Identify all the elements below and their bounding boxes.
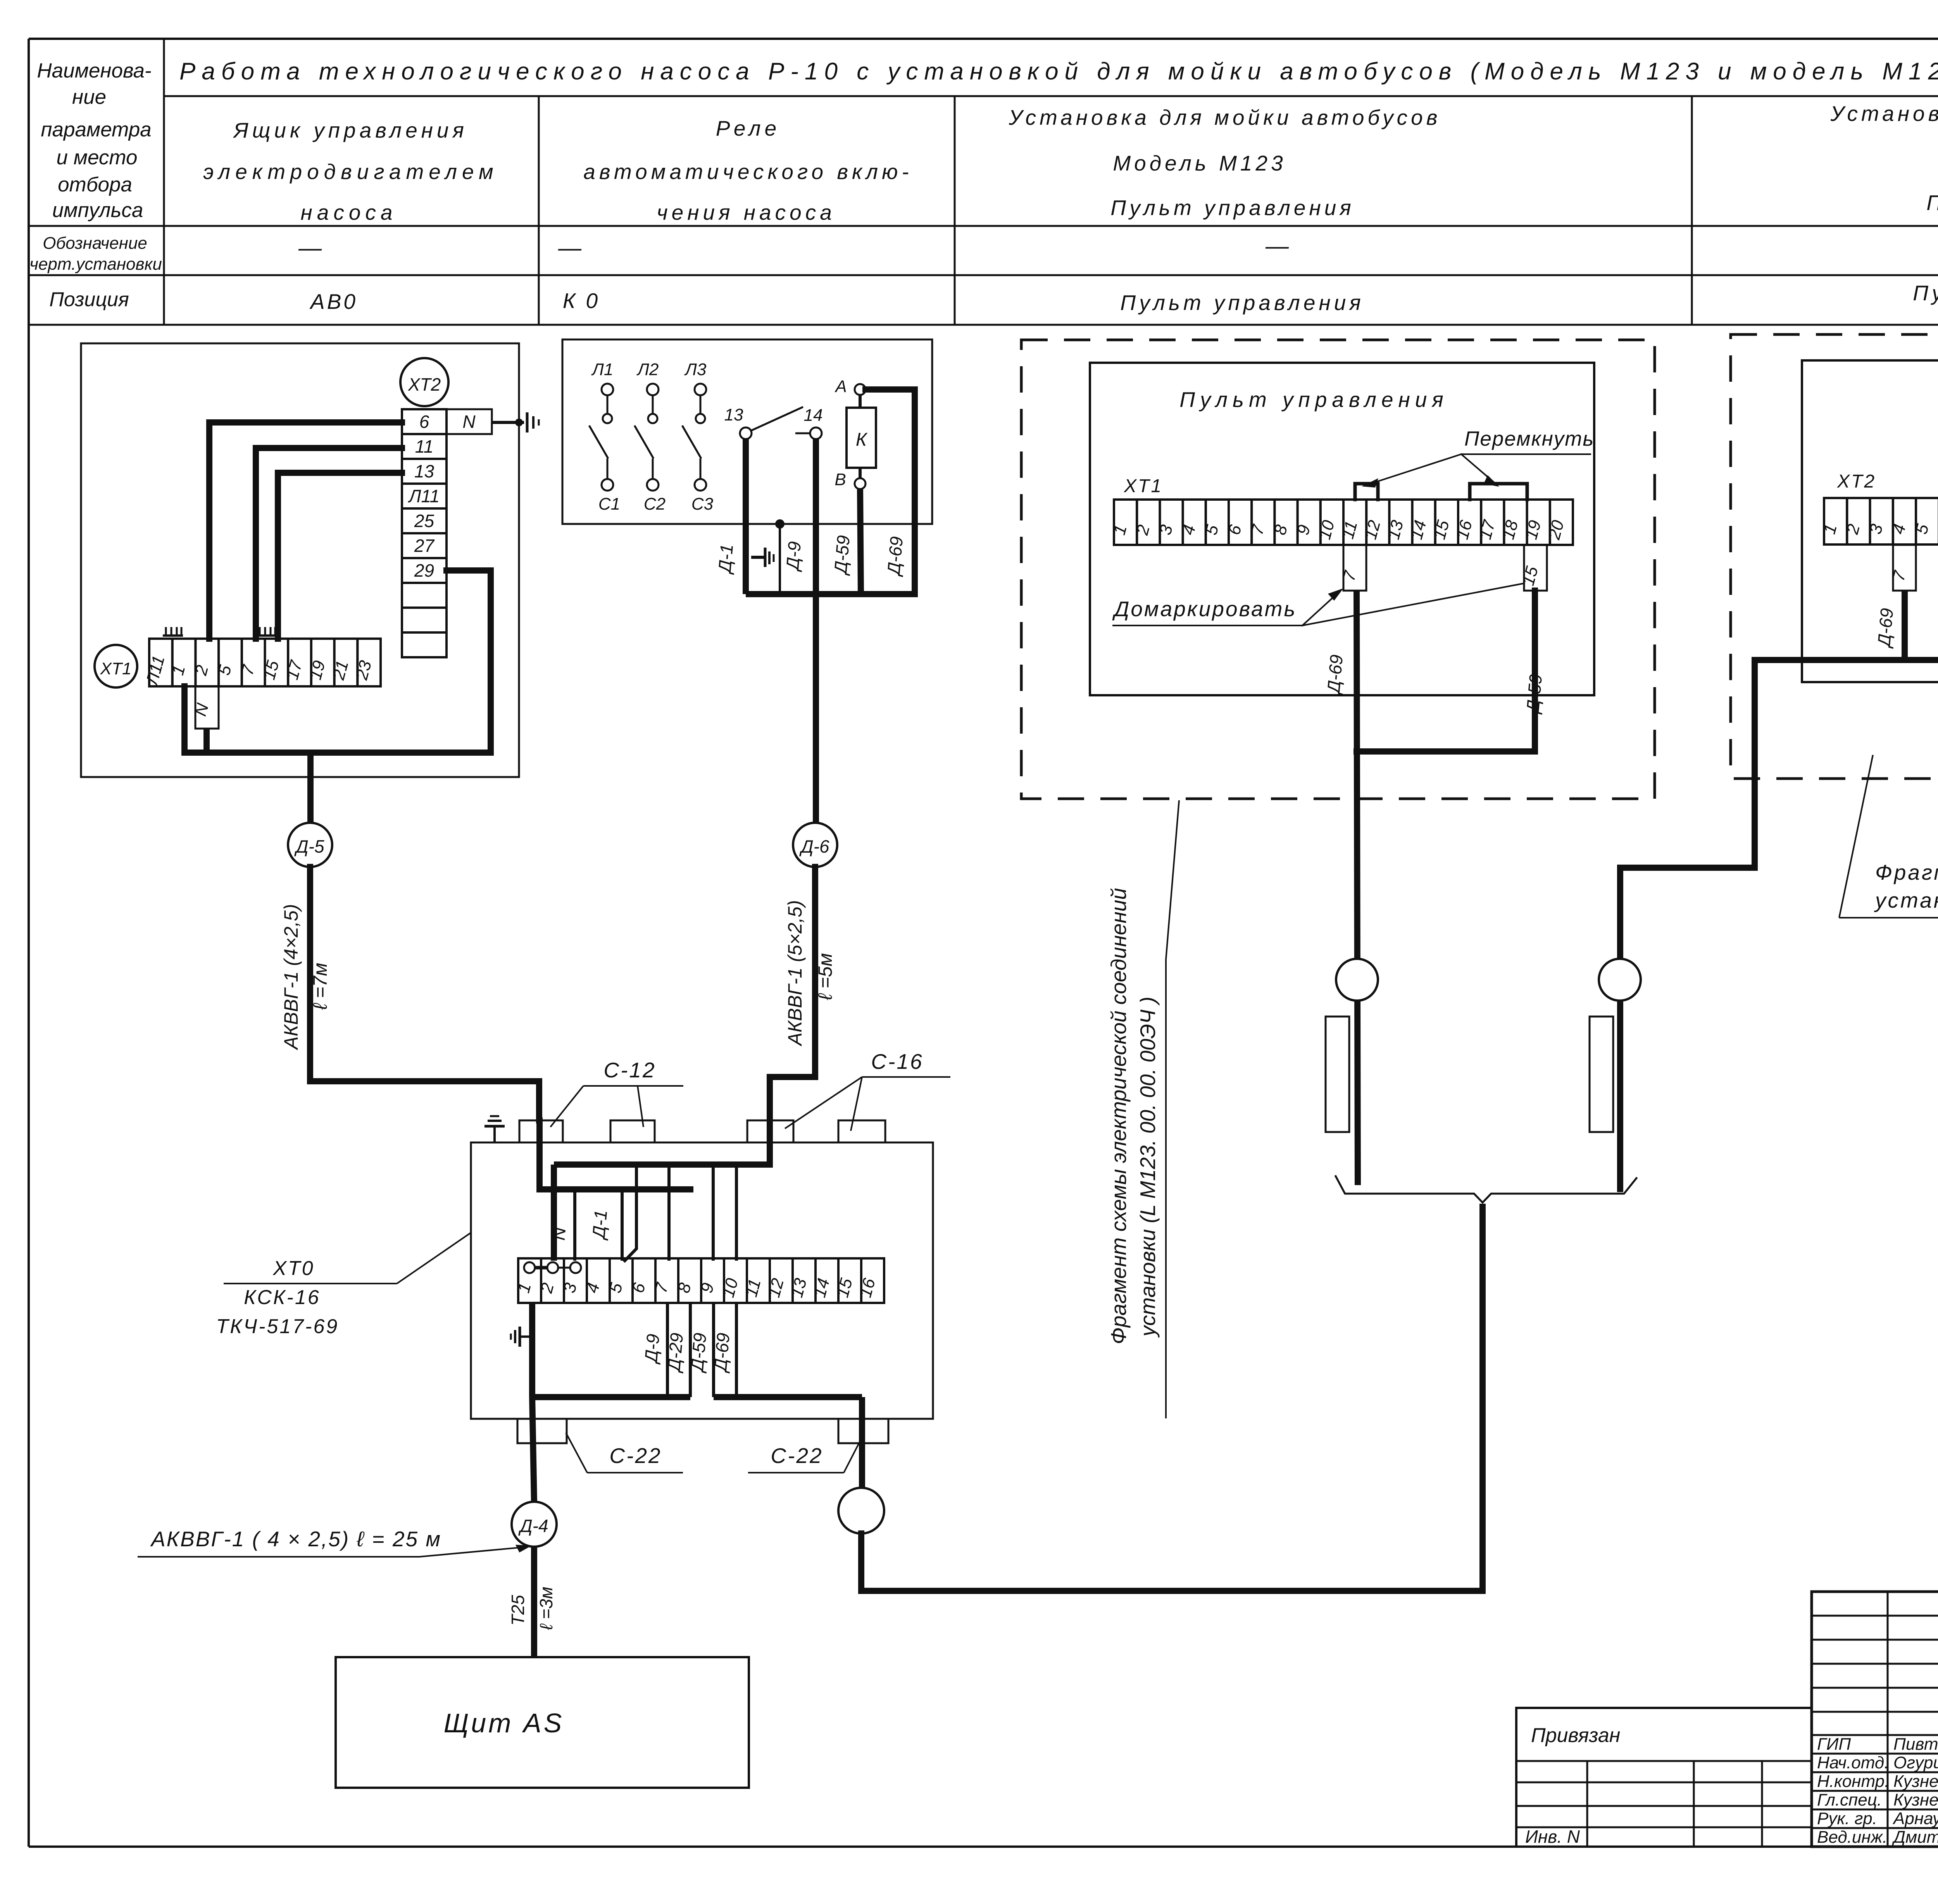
svg-text:С2: С2 bbox=[644, 495, 666, 513]
cable designation circle (unlabeled) bbox=[838, 1488, 884, 1534]
hanging terminal 15 bbox=[1519, 545, 1547, 591]
cable АКВВГ-1(5х2,5) run to gland C-16 bbox=[770, 867, 815, 1165]
wire XT1:N stub to bus bbox=[203, 729, 210, 753]
svg-text:Пульт управления: Пульт управления bbox=[1913, 281, 1938, 305]
svg-text:Установка для мойки автобус: Установка для мойки автобусов bbox=[1009, 105, 1441, 129]
title block grid bbox=[1812, 1592, 1938, 1847]
svg-text:С-22: С-22 bbox=[771, 1444, 823, 1468]
svg-text:и место: и место bbox=[57, 146, 138, 169]
cable gland bottom 2 bbox=[838, 1419, 888, 1443]
switch contact 13-14 bbox=[724, 405, 823, 439]
gland label C-22 right bbox=[748, 1433, 864, 1473]
terminal strip XT1 (horizontal, Л11..23) bbox=[142, 639, 381, 688]
gathering brace bbox=[1336, 1176, 1636, 1203]
wire 13 down bbox=[743, 439, 749, 594]
control cabinet box (Ящик управления) bbox=[81, 343, 519, 777]
svg-text:автоматического вклю-: автоматического вклю- bbox=[583, 160, 912, 184]
gland label C-12 bbox=[550, 1058, 683, 1127]
svg-text:—: — bbox=[298, 235, 322, 261]
cable designation circle Д-5 bbox=[288, 823, 332, 867]
wire to exit circle bbox=[859, 1397, 865, 1488]
svg-text:Д-9: Д-9 bbox=[641, 1333, 664, 1365]
svg-text:Д-4: Д-4 bbox=[518, 1516, 548, 1536]
wire Д-69 terminal 10 down bbox=[735, 1303, 738, 1397]
svg-text:Рук. гр.: Рук. гр. bbox=[1817, 1809, 1877, 1828]
switch contact Л3-С3 bbox=[682, 360, 714, 513]
wire bus to cable exit bbox=[307, 753, 314, 822]
svg-text:ХТ2: ХТ2 bbox=[1837, 471, 1876, 492]
svg-text:ℓ =7м: ℓ =7м bbox=[309, 963, 331, 1010]
jumper terminals 1-2-3 bbox=[524, 1262, 581, 1273]
svg-text:АВ0: АВ0 bbox=[309, 289, 358, 314]
svg-text:14: 14 bbox=[804, 406, 823, 425]
cable gland top 1 bbox=[519, 1120, 563, 1142]
terminal B bbox=[835, 470, 866, 489]
svg-text:Щит АS: Щит АS bbox=[444, 1708, 564, 1738]
svg-text:Фрагмент схемы электрической: Фрагмент схемы электрической соединений bbox=[1875, 860, 1938, 884]
control desk box M128 bbox=[1802, 360, 1938, 682]
svg-text:АКВВГ-1 ( 4 × 2,5) ℓ = 25 м: АКВВГ-1 ( 4 × 2,5) ℓ = 25 м bbox=[150, 1527, 441, 1551]
svg-text:Д-69: Д-69 bbox=[1873, 607, 1897, 649]
wire bus2 to terminal 3 bbox=[573, 1189, 576, 1261]
hanging terminal 7 (M128) bbox=[1889, 545, 1916, 591]
bottom bus left bbox=[532, 1394, 690, 1400]
svg-text:Пивторак: Пивторак bbox=[1893, 1735, 1938, 1754]
header table grid bbox=[29, 39, 1938, 325]
wire bus1 diagonal to terminal 5 bbox=[625, 1165, 636, 1261]
junction box XTО (КСК-16) bbox=[471, 1142, 933, 1419]
cable designation circle Д-4 bbox=[512, 1502, 557, 1547]
gland label C-16 bbox=[785, 1049, 950, 1131]
wire M123 Д-59 branch bbox=[1357, 591, 1535, 751]
svg-text:Позиция: Позиция bbox=[49, 288, 129, 311]
svg-text:Пульт управления: Пульт управления bbox=[1120, 291, 1364, 315]
label Домаркировать bbox=[1112, 584, 1522, 625]
note fragment schema M128 bbox=[1839, 755, 1938, 918]
svg-text:параметра: параметра bbox=[41, 118, 151, 141]
wire bottom run to M123/M128 installations bbox=[861, 1207, 1483, 1591]
svg-text:ХТ1: ХТ1 bbox=[1124, 476, 1163, 496]
svg-text:Перемкнуть: Перемкнуть bbox=[1464, 427, 1594, 450]
svg-text:6: 6 bbox=[419, 412, 429, 432]
wire K top bbox=[859, 395, 862, 408]
installation M123 enclosure (dashed) bbox=[1021, 340, 1655, 799]
wire from M128 desk bbox=[1620, 660, 1938, 1189]
svg-text:N: N bbox=[462, 412, 476, 432]
wire bus1 to terminal 10 bbox=[735, 1165, 738, 1261]
svg-text:Д-1: Д-1 bbox=[714, 543, 737, 576]
svg-text:насоса: насоса bbox=[300, 200, 397, 224]
inner bus from Д-6 cable bbox=[554, 1161, 770, 1168]
wire X72:11 to XT1:7 bbox=[256, 448, 402, 639]
svg-text:Реле: Реле bbox=[716, 116, 780, 140]
earth symbol left of wire bbox=[511, 1327, 532, 1347]
svg-text:К 0: К 0 bbox=[563, 289, 600, 313]
wire A loop bbox=[866, 389, 915, 594]
relay box (Реле автоматического включения насоса) bbox=[562, 339, 932, 524]
svg-text:Д-29: Д-29 bbox=[663, 1332, 687, 1374]
svg-text:Л2: Л2 bbox=[636, 360, 659, 379]
wire from M123 desk (Д-69/Д-59) bbox=[1357, 591, 1358, 1185]
wire to Д-4 bbox=[532, 1397, 534, 1502]
terminal A bbox=[834, 377, 866, 396]
svg-text:чения насоса: чения насоса bbox=[657, 200, 836, 224]
svg-text:Д-1: Д-1 bbox=[588, 1209, 611, 1241]
svg-text:Кузнецов: Кузнецов bbox=[1893, 1790, 1938, 1809]
svg-text:Домаркировать: Домаркировать bbox=[1112, 597, 1297, 621]
svg-text:ГИП: ГИП bbox=[1817, 1735, 1851, 1754]
svg-text:АКВВГ-1 (5×2,5): АКВВГ-1 (5×2,5) bbox=[784, 900, 806, 1047]
terminal strip XT1 1..20 bbox=[1110, 500, 1573, 545]
hanging terminal 7 bbox=[1339, 545, 1366, 591]
wire N to earth bbox=[492, 419, 524, 426]
wire X72:6 to XT1:2 bbox=[209, 422, 402, 639]
svg-text:ТКЧ-517-69: ТКЧ-517-69 bbox=[216, 1315, 339, 1338]
svg-text:25: 25 bbox=[414, 511, 434, 531]
svg-text:13: 13 bbox=[414, 461, 434, 481]
panel box Щит АS bbox=[336, 1657, 749, 1788]
wire B down bbox=[860, 489, 861, 594]
wire 14 down to Д-6 bbox=[813, 439, 819, 823]
svg-text:11: 11 bbox=[415, 436, 434, 457]
svg-text:К: К bbox=[856, 429, 868, 450]
svg-text:Л1: Л1 bbox=[591, 360, 614, 379]
cable gland bottom 1 bbox=[517, 1419, 567, 1443]
svg-text:ХТ2: ХТ2 bbox=[408, 374, 441, 395]
svg-text:С3: С3 bbox=[691, 495, 714, 513]
svg-text:установки (L М123. 00. 00. 00: установки (L М123. 00. 00. 00ЭЧ ) bbox=[1136, 997, 1160, 1338]
svg-text:ℓ =3м: ℓ =3м bbox=[536, 1587, 556, 1630]
terminal strip XT2 1..30 bbox=[1820, 498, 1938, 544]
svg-text:Л11: Л11 bbox=[408, 486, 440, 506]
svg-text:Дмитриева: Дмитриева bbox=[1891, 1828, 1938, 1847]
wire terminal 1 down bbox=[529, 1303, 535, 1397]
svg-text:Д-9: Д-9 bbox=[782, 541, 805, 573]
svg-text:27: 27 bbox=[414, 536, 435, 556]
svg-text:ХТ0: ХТ0 bbox=[272, 1257, 314, 1280]
earth tap wire bbox=[775, 519, 785, 594]
svg-text:Пульт управления: Пульт управления bbox=[1110, 196, 1354, 220]
svg-text:13: 13 bbox=[724, 405, 743, 424]
svg-text:Д-5: Д-5 bbox=[294, 836, 324, 856]
label Перемкнуть bbox=[1362, 427, 1594, 488]
wire bus1 to terminal 7 bbox=[667, 1165, 671, 1261]
note fragment schema M123 (rotated) bbox=[1107, 800, 1179, 1418]
wire K bottom bbox=[859, 468, 862, 478]
switch contact Л2-С2 bbox=[635, 360, 666, 513]
svg-text:С-16: С-16 bbox=[871, 1049, 923, 1073]
wire X72:13 to XT1:15 bbox=[278, 473, 402, 639]
svg-text:Привязан: Привязан bbox=[1531, 1724, 1620, 1747]
cable gland top 3 bbox=[747, 1120, 793, 1142]
shield termination mark left bbox=[163, 627, 183, 636]
jumper bracket 11-12 bbox=[1355, 484, 1378, 500]
earth symbol at cabinet right bbox=[527, 412, 539, 432]
svg-text:В: В bbox=[835, 470, 846, 489]
svg-text:ℓ =5м: ℓ =5м bbox=[814, 953, 836, 1000]
svg-text:С-22: С-22 bbox=[609, 1444, 662, 1468]
wire Д-29 terminal 8 down bbox=[689, 1303, 692, 1397]
svg-text:Фрагмент схемы электрической: Фрагмент схемы электрической соединений bbox=[1107, 888, 1131, 1344]
terminal N cell below XT1 bbox=[191, 686, 219, 729]
svg-text:Модель М123: Модель М123 bbox=[1113, 151, 1286, 175]
wire bus1 to terminal 2 bbox=[551, 1165, 557, 1261]
svg-text:Наименова-: Наименова- bbox=[37, 59, 151, 82]
earth symbol under relay box bbox=[751, 548, 774, 567]
svg-text:установки (L М128. 00. 00,0: установки (L М128. 00. 00,000ЭЧ) bbox=[1874, 888, 1938, 912]
svg-text:Д-69: Д-69 bbox=[883, 536, 907, 577]
svg-text:Нач.отд.: Нач.отд. bbox=[1817, 1753, 1889, 1772]
cable gland top 4 bbox=[838, 1120, 885, 1142]
cable circle on M128 wire bbox=[1599, 959, 1641, 1001]
box label ХТО bbox=[224, 1232, 471, 1284]
svg-text:Пульт управления: Пульт управления bbox=[1179, 388, 1448, 412]
wire Д-59 terminal 9 down bbox=[712, 1303, 715, 1397]
svg-text:импульса: импульса bbox=[52, 199, 143, 222]
wire bus1 to terminal 9 bbox=[712, 1165, 715, 1261]
connector circle XT2 bbox=[400, 358, 448, 406]
svg-text:ХТ1: ХТ1 bbox=[100, 659, 132, 678]
svg-text:Д-6: Д-6 bbox=[799, 836, 829, 856]
svg-text:—: — bbox=[1265, 233, 1289, 259]
svg-text:А: А bbox=[834, 377, 847, 396]
svg-text:N: N bbox=[548, 1226, 570, 1241]
cable circle on M123 wire bbox=[1336, 959, 1378, 1001]
wire Д-9 terminal 7 down bbox=[666, 1303, 669, 1397]
binding table (Привязан) bbox=[1516, 1708, 1812, 1847]
svg-text:Д-59: Д-59 bbox=[830, 534, 853, 576]
terminal strip X72 (vertical, cells 6..29) bbox=[402, 409, 447, 657]
cable designation circle Д-6 bbox=[793, 823, 837, 867]
shield termination mark right bbox=[257, 627, 277, 636]
svg-text:29: 29 bbox=[414, 560, 434, 581]
svg-text:Пульт управления: Пульт управления bbox=[1926, 191, 1938, 215]
signature rows bbox=[1817, 1735, 1938, 1847]
inner bus from Д-5 cable bbox=[540, 1120, 690, 1189]
svg-text:Д-69: Д-69 bbox=[1323, 654, 1347, 696]
cable label АКВВГ-1 (4х2,5) l=25m bbox=[138, 1527, 532, 1557]
cable marker M128 bbox=[1590, 1017, 1613, 1132]
svg-text:—: — bbox=[558, 235, 582, 261]
relay coil K bbox=[847, 408, 876, 468]
svg-text:Работа технологического нас: Работа технологического насоса Р-10 с ус… bbox=[179, 58, 1938, 85]
jumper bracket 16-19 bbox=[1470, 484, 1527, 500]
svg-text:Вед.инж.: Вед.инж. bbox=[1817, 1828, 1887, 1847]
svg-text:Инв. N: Инв. N bbox=[1525, 1826, 1580, 1847]
svg-text:Гл.спец.: Гл.спец. bbox=[1817, 1790, 1882, 1809]
header table texts bbox=[29, 58, 1938, 315]
svg-text:электродвигателем: электродвигателем bbox=[203, 160, 498, 184]
svg-text:Т25: Т25 bbox=[508, 1595, 528, 1626]
wire Д-1 to terminal 5 bbox=[621, 1189, 624, 1261]
svg-text:отбора: отбора bbox=[58, 173, 132, 196]
svg-text:Д-59: Д-59 bbox=[1522, 673, 1546, 715]
control desk box M123 bbox=[1090, 363, 1594, 695]
terminal N cell of X72 bbox=[447, 409, 492, 434]
svg-text:Ящик управления: Ящик управления bbox=[233, 118, 468, 142]
earth symbol on box top bbox=[484, 1116, 505, 1142]
svg-text:ние: ние bbox=[72, 86, 106, 109]
wire Д-4 to panel AS bbox=[531, 1547, 537, 1657]
svg-text:Установка для мойки автобус: Установка для мойки автобусов bbox=[1830, 102, 1938, 126]
gland label C-22 left bbox=[566, 1433, 683, 1473]
svg-text:Огурцов: Огурцов bbox=[1893, 1753, 1938, 1772]
cable gland top 2 bbox=[610, 1120, 655, 1142]
svg-text:С1: С1 bbox=[598, 495, 620, 513]
svg-text:черт.установки: черт.установки bbox=[29, 255, 162, 274]
wire X72:29 to bottom bus bbox=[184, 570, 491, 753]
cable АКВВГ-1(4х2,5) run to gland C-12 bbox=[310, 867, 539, 1120]
svg-text:Д-69: Д-69 bbox=[710, 1332, 733, 1374]
svg-text:КСК-16: КСК-16 bbox=[244, 1286, 320, 1309]
svg-text:Л3: Л3 bbox=[684, 360, 707, 379]
bottom bus right bbox=[714, 1394, 862, 1400]
relay bottom bus bbox=[746, 591, 915, 597]
svg-text:Н.контр.: Н.контр. bbox=[1817, 1772, 1889, 1791]
cable marker M123 bbox=[1326, 1017, 1349, 1132]
svg-text:Арнаутова: Арнаутова bbox=[1892, 1809, 1938, 1828]
svg-text:АКВВГ-1 (4×2,5): АКВВГ-1 (4×2,5) bbox=[280, 904, 302, 1051]
switch contact Л1-С1 bbox=[589, 360, 620, 513]
svg-text:Д-59: Д-59 bbox=[686, 1332, 710, 1374]
terminal strip XTО 1..16 bbox=[514, 1258, 884, 1303]
wire Д-69 M128 down bbox=[1902, 591, 1908, 660]
svg-text:Кузнецов: Кузнецов bbox=[1893, 1772, 1938, 1791]
connector circle XT1 bbox=[95, 645, 137, 688]
svg-text:С-12: С-12 bbox=[603, 1058, 656, 1082]
installation M128 enclosure (dashed) bbox=[1731, 334, 1938, 779]
svg-text:Обозначение: Обозначение bbox=[43, 234, 147, 253]
